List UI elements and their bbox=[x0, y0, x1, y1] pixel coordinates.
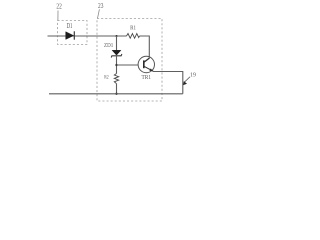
transistor TR1 bbox=[138, 56, 154, 72]
leader for label 22 bbox=[57, 11, 59, 21]
wire: top rail from R1 to collector corner, then down to TR1 collector bbox=[140, 36, 150, 58]
svg-text:22: 22 bbox=[56, 1, 62, 10]
svg-text:TR1: TR1 bbox=[142, 74, 152, 81]
svg-text:R2: R2 bbox=[104, 75, 109, 81]
box 22 (dashed enclosure) bbox=[58, 21, 88, 45]
node: junction of base wire with ZD1/R2 wire bbox=[115, 64, 117, 66]
svg-text:D1: D1 bbox=[67, 22, 73, 30]
wire: ZD1 cathode to R2 bbox=[116, 56, 118, 74]
resistor R2 (vertical zigzag) bbox=[114, 74, 118, 84]
resistor R1 (zigzag on top rail) bbox=[127, 34, 140, 39]
node: junction of R2 with bottom rail bbox=[115, 93, 117, 95]
wire: R2 to bottom rail bbox=[116, 84, 118, 94]
svg-text:ZD1: ZD1 bbox=[104, 42, 113, 49]
wire: base wire to TR1 bbox=[117, 64, 139, 66]
zener diode ZD1 bbox=[111, 50, 122, 57]
svg-text:23: 23 bbox=[98, 1, 104, 10]
wire: ZD1 anode drop bbox=[116, 36, 118, 50]
leader for label 23 bbox=[98, 9, 100, 18]
wire: top rail from left end to resistor R1 bbox=[48, 35, 127, 37]
svg-text:19: 19 bbox=[190, 71, 196, 78]
wire: emitter run to right corner and down bbox=[153, 72, 183, 94]
wire: bottom rail bbox=[49, 93, 183, 95]
node: junction of ZD1 with top rail bbox=[116, 35, 118, 37]
diode D1 bbox=[66, 31, 75, 39]
svg-text:R1: R1 bbox=[130, 26, 136, 32]
box 23 (dashed enclosure) bbox=[97, 19, 162, 102]
leader arrow for label 19 bbox=[183, 77, 190, 85]
